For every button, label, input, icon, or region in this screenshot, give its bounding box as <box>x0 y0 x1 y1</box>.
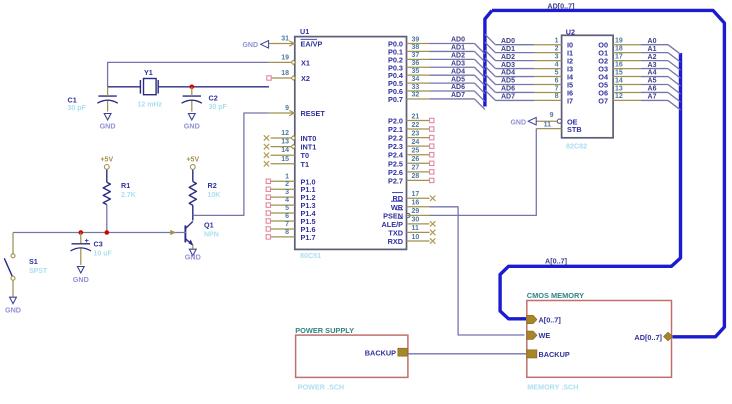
sheet symbol POWER SUPPLY <box>295 326 408 391</box>
crystal Y1 <box>138 68 163 108</box>
svg-text:X2: X2 <box>301 74 310 83</box>
U2 I5 pin name <box>567 81 573 90</box>
svg-text:27: 27 <box>412 165 420 172</box>
svg-text:28: 28 <box>412 173 420 180</box>
junction node at R1 <box>105 230 110 235</box>
U1 ALE/P pin name <box>382 218 404 229</box>
svg-text:+5V: +5V <box>100 157 113 164</box>
U2 pin 6 I5 stub <box>534 77 562 84</box>
svg-text:C1: C1 <box>68 95 77 104</box>
svg-text:AD0: AD0 <box>501 38 515 45</box>
U2 pin 18 O1 stub <box>613 45 641 52</box>
U1 INT0 pin name <box>301 134 317 143</box>
U1 pin 28 P2.7 stub (dangling wire) <box>407 173 434 182</box>
svg-text:A7: A7 <box>648 94 657 101</box>
svg-text:AD7: AD7 <box>451 92 465 99</box>
U2 O1 pin name <box>598 49 608 58</box>
U1 EA/VP pin name <box>301 39 323 48</box>
svg-text:P1.7: P1.7 <box>301 233 316 242</box>
wire net A6 from U2 O6 to bus <box>641 86 681 102</box>
svg-text:16: 16 <box>615 61 623 68</box>
U1 TXD pin name <box>388 228 403 237</box>
U1 pin 29 PSEN stub <box>406 208 429 217</box>
U2 O0 pin name <box>598 41 608 50</box>
svg-text:R2: R2 <box>208 181 217 190</box>
svg-text:AD7: AD7 <box>501 94 515 101</box>
svg-text:+5V: +5V <box>186 157 199 164</box>
IC U2 82C82 latch body <box>562 27 614 150</box>
svg-text:14: 14 <box>615 77 623 84</box>
U2 I0 pin name <box>567 41 573 50</box>
U2 pin 19 O0 stub <box>613 38 641 45</box>
svg-text:AD5: AD5 <box>451 76 465 83</box>
U1 pin 12 INT0 stub (no connect) <box>264 130 296 141</box>
power port GND at U2 OE <box>510 117 536 126</box>
svg-text:Q1: Q1 <box>204 221 214 230</box>
svg-text:MEMORY .SCH: MEMORY .SCH <box>527 382 578 391</box>
wire net AD4 from P0.4 to bus <box>430 68 485 85</box>
power +5V at R2 <box>186 157 199 182</box>
svg-text:14: 14 <box>281 147 289 154</box>
svg-text:4: 4 <box>285 197 289 204</box>
switch S1 SPST <box>4 233 48 297</box>
svg-text:POWER SUPPLY: POWER SUPPLY <box>295 326 354 335</box>
wire main reset rail <box>13 230 186 235</box>
U1 P1.6 pin name <box>301 225 316 234</box>
U2 I4 pin name <box>567 73 574 82</box>
wire net AD7 from bus to U2 I7 <box>485 90 534 101</box>
svg-text:30: 30 <box>412 217 420 224</box>
svg-text:30 pF: 30 pF <box>209 104 228 111</box>
wire R1 to junction <box>106 205 108 233</box>
U1 pin 22 P2.1 stub (dangling wire) <box>407 122 434 131</box>
svg-text:Y1: Y1 <box>144 68 153 77</box>
junction node at C3 <box>79 230 84 235</box>
svg-text:11: 11 <box>544 122 552 129</box>
U1 P2.2 pin name <box>388 134 403 143</box>
svg-text:80C51: 80C51 <box>300 251 321 260</box>
U1 pin 33 P0.6 stub <box>407 84 430 91</box>
svg-text:RESET: RESET <box>301 109 326 118</box>
svg-text:A[0..7]: A[0..7] <box>545 257 567 266</box>
svg-text:S1: S1 <box>29 257 38 266</box>
U2 pin 1 I0 stub <box>534 38 562 45</box>
U1 pin 24 P2.3 stub (dangling wire) <box>407 139 434 148</box>
wire net A5 from U2 O5 to bus <box>641 78 681 94</box>
svg-text:7: 7 <box>555 85 559 92</box>
svg-text:NPN: NPN <box>204 232 219 239</box>
U1 pin 21 P2.0 stub (dangling wire) <box>407 113 434 122</box>
svg-text:WE: WE <box>539 331 551 340</box>
wire net AD6 from bus to U2 I6 <box>485 82 534 93</box>
U1 pin 31 EA/VP stub <box>269 36 295 47</box>
U2 pin 15 O4 stub <box>613 69 641 76</box>
wire emitter to ground <box>192 245 194 249</box>
U1 P2.5 pin name <box>388 159 403 168</box>
U2 O2 pin name <box>598 57 608 66</box>
svg-text:BACKUP: BACKUP <box>539 350 570 359</box>
wire R2 to collector <box>192 205 194 220</box>
svg-text:AD4: AD4 <box>451 68 465 75</box>
U2 I7 pin name <box>567 96 573 105</box>
svg-text:25: 25 <box>412 148 420 155</box>
U1 P1.7 pin name <box>301 233 316 242</box>
svg-text:29: 29 <box>412 208 420 215</box>
wire BACKUP net <box>407 353 527 355</box>
bus A[0..7] route <box>500 53 680 319</box>
svg-text:5: 5 <box>285 205 289 212</box>
U1 RESET pin name <box>301 109 326 118</box>
svg-text:AD3: AD3 <box>501 62 515 69</box>
svg-text:AD6: AD6 <box>451 84 465 91</box>
svg-text:12: 12 <box>615 93 623 100</box>
svg-text:26: 26 <box>412 156 420 163</box>
wire net AD0 from bus to U2 I0 <box>485 34 534 45</box>
svg-text:8: 8 <box>285 229 289 236</box>
svg-text:35: 35 <box>412 68 420 75</box>
capacitor C1 <box>68 87 118 112</box>
wire net AD2 from P0.2 to bus <box>430 53 485 70</box>
svg-text:8: 8 <box>555 93 559 100</box>
U1 P1.5 pin name <box>301 217 316 226</box>
U1 pin 30 ALE/P stub <box>407 217 436 227</box>
U1 P0.4 pin name <box>388 71 404 80</box>
svg-text:GND: GND <box>100 121 116 130</box>
svg-text:A4: A4 <box>648 70 657 77</box>
svg-text:AD4: AD4 <box>501 70 515 77</box>
U1 pin 9 RESET stub <box>269 105 295 116</box>
svg-text:P2.7: P2.7 <box>388 176 403 185</box>
capacitor C3 polarized <box>71 233 113 265</box>
junction node at C2 <box>190 85 195 90</box>
svg-text:22: 22 <box>412 122 420 129</box>
svg-text:A0: A0 <box>648 38 657 45</box>
svg-text:AD[0..7]: AD[0..7] <box>634 333 662 342</box>
U1 pin 25 P2.4 stub (dangling wire) <box>407 148 434 157</box>
U1 pin 2 P1.1 stub (dangling wire) <box>266 181 295 191</box>
svg-text:AD1: AD1 <box>501 46 515 53</box>
svg-text:39: 39 <box>412 36 420 43</box>
svg-text:GND: GND <box>5 306 21 315</box>
U2 I1 pin name <box>567 49 573 58</box>
U1 pin 3 P1.2 stub (dangling wire) <box>266 189 295 199</box>
U1 pin 26 P2.5 stub (dangling wire) <box>407 156 434 165</box>
U1 pin 6 P1.5 stub (dangling wire) <box>266 213 295 223</box>
U1 P0.3 pin name <box>388 63 403 72</box>
svg-text:CMOS MEMORY: CMOS MEMORY <box>527 291 584 300</box>
port AD[0..7] on memory <box>634 332 672 342</box>
svg-text:GND: GND <box>184 121 200 130</box>
U1 pin 15 T1 stub (no connect) <box>264 156 295 167</box>
U1 pin 38 P0.1 stub <box>407 44 430 51</box>
svg-text:AD6: AD6 <box>501 86 515 93</box>
svg-text:U2: U2 <box>566 27 575 36</box>
ground at C1 <box>100 114 116 131</box>
U1 P1.3 pin name <box>301 201 316 210</box>
svg-text:O7: O7 <box>598 96 608 105</box>
U1 P1.1 pin name <box>301 185 316 194</box>
svg-text:U1: U1 <box>300 27 309 36</box>
ground at C3 <box>73 267 89 285</box>
svg-text:EA/VP: EA/VP <box>301 40 323 49</box>
U1 pin 18 X2 stub with unconnected end <box>267 70 296 80</box>
svg-text:RXD: RXD <box>388 237 403 246</box>
svg-text:31: 31 <box>281 36 289 43</box>
svg-text:9: 9 <box>550 112 554 119</box>
U1 PSEN pin name <box>383 210 403 221</box>
wire PSEN to STB <box>430 129 537 216</box>
sheet symbol CMOS MEMORY <box>527 291 672 391</box>
U1 pin 39 P0.0 stub <box>407 36 430 43</box>
svg-text:6: 6 <box>555 77 559 84</box>
wire X1 net to crystal <box>108 62 269 86</box>
svg-text:2: 2 <box>555 45 559 52</box>
svg-text:AD2: AD2 <box>501 54 515 61</box>
wire net AD5 from P0.5 to bus <box>430 76 485 93</box>
bus AD[0..7] label top <box>547 1 574 10</box>
U1 P0.7 pin name <box>388 95 403 104</box>
svg-text:SPST: SPST <box>29 268 48 275</box>
svg-text:6: 6 <box>285 213 289 220</box>
port WE on memory <box>527 331 551 340</box>
U1 RXD pin name <box>388 237 403 246</box>
transistor Q1 NPN <box>185 221 218 246</box>
svg-text:36: 36 <box>412 60 420 67</box>
U1 pin 7 P1.6 stub (dangling wire) <box>266 221 295 231</box>
svg-text:13: 13 <box>615 85 623 92</box>
U2 I6 pin name <box>567 88 573 97</box>
svg-text:AD5: AD5 <box>501 78 515 85</box>
svg-text:3: 3 <box>555 53 559 60</box>
svg-text:AD0: AD0 <box>451 37 465 44</box>
svg-text:2.7K: 2.7K <box>121 192 136 199</box>
U1 pin 19 X1 stub <box>269 54 296 64</box>
U2 pin 2 I1 stub <box>534 45 562 52</box>
svg-text:R1: R1 <box>121 181 130 190</box>
U2 pin 7 I6 stub <box>534 85 562 92</box>
U1 WR pin name <box>391 201 404 212</box>
resistor R1 <box>103 181 136 205</box>
power port GND at EA/VP <box>242 41 268 49</box>
svg-text:POWER .SCH: POWER .SCH <box>298 382 344 391</box>
svg-text:24: 24 <box>412 139 420 146</box>
svg-text:I7: I7 <box>567 96 573 105</box>
svg-text:15: 15 <box>615 69 623 76</box>
svg-text:18: 18 <box>615 45 623 52</box>
U1 P1.2 pin name <box>301 193 316 202</box>
svg-text:21: 21 <box>412 113 420 120</box>
svg-text:37: 37 <box>412 52 420 59</box>
wire net AD2 from bus to U2 I2 <box>485 50 534 61</box>
svg-text:12 mHz: 12 mHz <box>138 102 163 109</box>
port A[0..7] on memory <box>527 315 562 324</box>
U1 RD pin name <box>392 193 403 204</box>
svg-text:82C82: 82C82 <box>566 142 587 151</box>
U1 pin 23 P2.2 stub (dangling wire) <box>407 130 434 139</box>
svg-text:5: 5 <box>555 69 559 76</box>
U1 P1.4 pin name <box>301 209 317 218</box>
U1 pin 1 P1.0 stub (dangling wire) <box>266 173 295 183</box>
U2 pin 12 O7 stub <box>613 93 641 100</box>
wire net AD3 from bus to U2 I3 <box>485 58 534 69</box>
svg-text:STB: STB <box>567 125 582 134</box>
svg-text:10 uF: 10 uF <box>94 251 113 258</box>
U2 pin 9 OE stub with bubble <box>535 112 562 123</box>
wire net AD7 from P0.7 to bus <box>430 92 485 109</box>
wire net AD6 from P0.6 to bus <box>430 84 485 101</box>
U1 P2.7 pin name <box>388 176 403 185</box>
wire collector junction to RESET <box>193 113 269 215</box>
U1 P2.6 pin name <box>388 168 403 177</box>
U1 P2.1 pin name <box>388 125 403 134</box>
wire net AD5 from bus to U2 I5 <box>485 74 534 85</box>
U1 P2.4 pin name <box>388 151 404 160</box>
svg-text:17: 17 <box>412 191 420 198</box>
U1 P0.5 pin name <box>388 79 403 88</box>
wire net AD4 from bus to U2 I4 <box>485 66 534 77</box>
U1 pin 27 P2.6 stub (dangling wire) <box>407 165 434 174</box>
svg-text:10: 10 <box>412 234 420 241</box>
U2 pin 16 O3 stub <box>613 61 641 68</box>
svg-text:AD1: AD1 <box>451 45 465 52</box>
svg-text:15: 15 <box>281 156 289 163</box>
svg-text:A2: A2 <box>648 54 657 61</box>
U2 I3 pin name <box>567 65 573 74</box>
U1 P0.6 pin name <box>388 87 403 96</box>
U1 P0.2 pin name <box>388 55 403 64</box>
U1 pin 13 INT1 stub (no connect) <box>264 139 296 150</box>
svg-text:3: 3 <box>285 189 289 196</box>
svg-text:34: 34 <box>412 76 420 83</box>
svg-text:T1: T1 <box>301 160 310 169</box>
svg-text:AD3: AD3 <box>451 60 465 67</box>
ground at C2 <box>184 114 200 131</box>
U2 O3 pin name <box>598 65 608 74</box>
U1 pin 8 P1.7 stub (dangling wire) <box>266 229 295 239</box>
U1 pin 37 P0.2 stub <box>407 52 430 59</box>
U2 O7 pin name <box>598 96 608 105</box>
power +5V at R1 <box>100 157 113 183</box>
svg-text:A6: A6 <box>648 86 657 93</box>
resistor R2 <box>189 181 220 205</box>
U2 STB pin name <box>567 125 582 134</box>
U1 pin 35 P0.4 stub <box>407 68 430 75</box>
svg-text:11: 11 <box>412 225 420 232</box>
wire net AD0 from P0.0 to bus <box>430 37 485 54</box>
U1 pin 4 P1.3 stub (dangling wire) <box>266 197 295 207</box>
svg-text:18: 18 <box>281 70 289 77</box>
U2 O4 pin name <box>598 73 609 82</box>
svg-text:A5: A5 <box>648 78 657 85</box>
U1 X1 pin name <box>301 58 310 67</box>
svg-text:P0.7: P0.7 <box>388 95 403 104</box>
svg-text:GND: GND <box>510 119 526 126</box>
svg-text:19: 19 <box>281 54 289 61</box>
IC U1 80C51 body <box>295 27 407 260</box>
U2 pin 3 I2 stub <box>534 53 562 60</box>
svg-text:33: 33 <box>412 84 420 91</box>
svg-text:19: 19 <box>615 38 623 45</box>
svg-text:17: 17 <box>615 53 623 60</box>
svg-text:4: 4 <box>555 61 559 68</box>
svg-text:GND: GND <box>73 275 89 284</box>
svg-text:A3: A3 <box>648 62 657 69</box>
svg-text:1: 1 <box>285 173 289 180</box>
wire net A3 from U2 O3 to bus <box>641 62 681 78</box>
svg-text:+: + <box>85 236 90 245</box>
wire net A1 from U2 O1 to bus <box>641 46 681 62</box>
svg-text:X1: X1 <box>301 58 310 67</box>
U1 pin 36 P0.3 stub <box>407 60 430 67</box>
svg-text:9: 9 <box>285 105 289 112</box>
svg-text:C3: C3 <box>94 240 103 249</box>
U2 pin 17 O2 stub <box>613 53 641 60</box>
U1 pin 5 P1.4 stub (dangling wire) <box>266 205 295 215</box>
svg-text:BACKUP: BACKUP <box>365 348 396 357</box>
U1 T1 pin name <box>301 160 310 169</box>
U1 pin 16 WR stub <box>407 200 430 207</box>
wire net A7 from U2 O7 to bus <box>641 94 681 110</box>
svg-text:GND: GND <box>185 253 201 262</box>
ground at Q1 emitter <box>185 249 201 261</box>
U1 X2 pin name <box>301 74 310 83</box>
svg-text:GND: GND <box>242 42 258 49</box>
U1 P1.0 pin name <box>301 177 316 186</box>
U1 pin 17 RD stub <box>407 191 436 201</box>
bus A[0..7] label <box>545 257 567 266</box>
U2 O6 pin name <box>598 88 608 97</box>
svg-text:23: 23 <box>412 130 420 137</box>
ground at S1 <box>5 297 21 314</box>
svg-text:12: 12 <box>281 130 289 137</box>
capacitor C2 <box>182 87 228 112</box>
U1 INT1 pin name <box>301 143 317 152</box>
svg-text:1: 1 <box>555 38 559 45</box>
wire net AD3 from P0.3 to bus <box>430 60 485 77</box>
U2 OE pin name <box>567 117 578 126</box>
svg-text:7: 7 <box>285 221 289 228</box>
U1 pin 32 P0.7 stub <box>407 92 430 99</box>
svg-text:C2: C2 <box>209 93 218 102</box>
svg-text:AD2: AD2 <box>451 53 465 60</box>
wire WR to WE <box>430 207 525 335</box>
U1 P2.3 pin name <box>388 142 403 151</box>
U2 pin 5 I4 stub <box>534 69 562 76</box>
U2 I2 pin name <box>567 57 573 66</box>
svg-text:30 pF: 30 pF <box>68 105 87 112</box>
U2 pin 8 I7 stub <box>534 93 562 100</box>
U2 O5 pin name <box>598 81 608 90</box>
wire net A4 from U2 O4 to bus <box>641 70 681 86</box>
svg-text:A[0..7]: A[0..7] <box>539 316 562 325</box>
svg-text:10K: 10K <box>208 192 221 199</box>
U1 P2.0 pin name <box>388 117 403 126</box>
wire net A2 from U2 O2 to bus <box>641 54 681 70</box>
svg-text:A1: A1 <box>648 46 657 53</box>
U1 T0 pin name <box>301 151 310 160</box>
svg-text:38: 38 <box>412 44 420 51</box>
U1 P0.0 pin name <box>388 40 403 49</box>
U1 pin 10 RXD stub <box>407 234 436 244</box>
U1 pin 11 TXD stub <box>407 225 436 235</box>
U2 pin 13 O6 stub <box>613 85 641 92</box>
U1 pin 14 T0 stub (no connect) <box>264 147 295 158</box>
bus AD[0..7] main loop <box>485 10 725 336</box>
port BACKUP on memory <box>527 350 570 359</box>
wire crystal horizontal <box>108 86 269 88</box>
U2 pin 14 O5 stub <box>613 77 641 84</box>
svg-text:13: 13 <box>281 139 289 146</box>
